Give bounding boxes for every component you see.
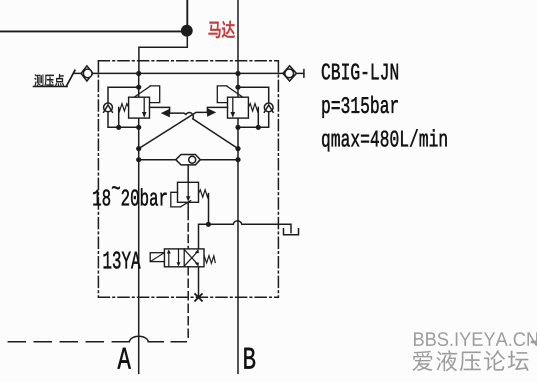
test point M2: right measuring coupling (diamond) [283,66,297,81]
relief valve RV1 spring [119,104,129,111]
check valve CV1 seat chevron [104,105,113,112]
wire: RV2 outlet to crossover [207,107,227,112]
label: 13YA [104,251,141,268]
wire: DV1 B-port down to plugged port [198,267,200,298]
terminal tick at right test point [303,70,305,78]
wire: crossover from RV2 area to A riser [139,112,207,148]
shuttle valve SH1 ball [189,156,196,163]
wire: gauge line across block at y=73.5 [75,72,285,74]
label: CBIG-LJN [322,63,398,79]
check valve CV2 (circle) [264,103,273,112]
wire: drain junction to solenoid P port [199,224,209,249]
relief valve RV2 pilot loop [217,86,227,103]
node dots: A riser junctions [116,71,141,162]
relief valve RV1 body [129,97,150,118]
flow arrow into RV2 (right-pointing solid) [207,108,216,117]
plugged port X at boundary [195,294,202,301]
relief valve RV1 internal flow arrow [143,97,145,112]
tank symbol T1 [284,229,299,235]
wire: CV2 bottom to drain rail [238,112,269,128]
pressure valve PV1 adjust arrow [181,201,191,207]
node: drain junction dot [206,222,211,227]
label: 测压点 text with underline [34,74,64,86]
wire: B riser (port B vertical line) [237,0,239,373]
wire: A riser to RV1 top loop [108,87,139,103]
relief valve RV2 spring [248,104,258,111]
watermark: 爱液压论坛 [412,350,528,371]
node dots: B riser junctions [235,71,261,162]
label leader: 测压点 pointer line [66,70,75,86]
wire: shuttle rail A to B [139,159,238,161]
watermark: BBS.IYEYA.CN [414,332,537,346]
wire: CV1 bottom to drain rail [108,112,139,128]
test point M2: right measuring coupling (circle) [285,69,294,78]
relief valve RV1 pilot loop [150,86,160,103]
label: p=315bar [322,96,397,118]
watermark: trailing dash [531,341,537,344]
wire: RV1 spring drain down [118,108,120,128]
label: port B [244,348,255,369]
wire: RV2 spring drain down [257,108,259,128]
relief valve RV1 adjust arrow [135,86,151,97]
test point M1: left measuring coupling (circle) [83,69,92,78]
wire: crossover from RV1 area to B riser (with hop at crossing) [170,113,238,149]
wire: jog from motor junction down-left to A riser [139,31,187,74]
check valve CV2 seat chevron [264,105,273,112]
wire: B riser to RV2 top loop [238,87,269,103]
label: port A [118,348,131,369]
enclosure: valve block boundary (chain line) [98,61,278,297]
label: qmax=480L/min [322,129,447,151]
label: 18~20bar [93,190,110,206]
wire: motor port stub up from junction [186,0,188,30]
DV1 left position: parallel arrows [168,253,170,267]
wire: DV1 A-port down (dashed pilot) through boundary [187,267,189,342]
node: motor junction dot [181,25,193,37]
relief valve RV2 internal flow arrow [232,97,234,112]
wire: PV1 outlet (pilot, dashed) down to solenoid valve [187,202,189,212]
pressure valve PV1 internal arrow [187,182,189,196]
pressure valve PV1 body [178,182,199,202]
wire: pilot line along bottom with hop over A riser [148,341,188,343]
pressure valve PV1 pilot loop (left) [171,192,181,207]
wire: RV1 outlet to crossover [150,107,170,113]
wire: motor supply horizontal to left edge [0,30,187,32]
DV1 right position: crossed arrows [185,252,197,266]
label: 马达 (motor, red) [208,21,235,39]
wire: A riser (port A vertical line) [138,74,140,374]
directional valve DV1 body (two positions) [164,249,204,267]
check valve CV1 (circle) [104,103,113,112]
wire: PV1 spring to drain junction [208,194,210,225]
test point M1: left measuring coupling (diamond) [81,66,93,81]
wire: drain rail with hop over B riser to tank [208,221,291,233]
DV1 solenoid coil [150,253,164,262]
flow arrow into RV1 (left-pointing solid) [161,109,170,118]
pressure valve PV1 spring (right) [199,190,209,197]
shuttle valve SH1 (hexagon) [176,155,201,165]
relief valve RV2 adjust arrow [227,86,243,97]
wire: shuttle outlet down to pilot relief [187,165,189,182]
relief valve RV2 body [228,97,249,118]
wire: right test point tail [296,72,304,74]
DV1 return spring [204,255,215,263]
